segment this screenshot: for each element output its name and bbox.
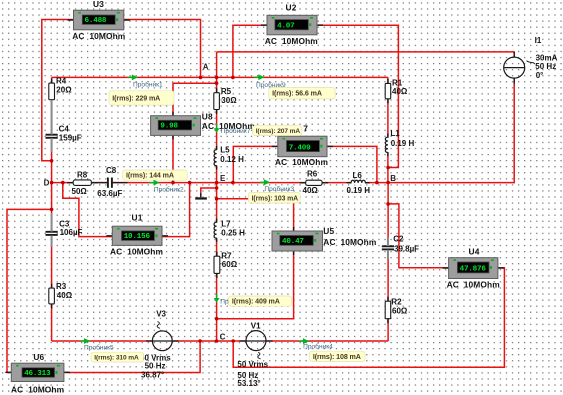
svg-text:C4: C4 bbox=[59, 124, 70, 133]
junction U2 tap bbox=[386, 166, 390, 170]
multimeter U3 bbox=[68, 10, 130, 30]
ground bbox=[195, 193, 207, 199]
svg-text:R4: R4 bbox=[56, 76, 67, 85]
junction B bbox=[386, 181, 390, 185]
svg-text:4.07: 4.07 bbox=[277, 23, 295, 31]
capacitor lead C3 gray bbox=[51, 213, 53, 232]
svg-text:I(rms): 56.6 mA: I(rms): 56.6 mA bbox=[272, 90, 322, 98]
resistor R6 bbox=[300, 180, 328, 185]
svg-text:R8: R8 bbox=[77, 171, 88, 180]
svg-text:20Ω: 20Ω bbox=[56, 86, 72, 95]
capacitor C4 bbox=[46, 134, 58, 139]
svg-text:I(rms): 310 mA: I(rms): 310 mA bbox=[94, 355, 139, 362]
inductor L6 bbox=[347, 180, 370, 184]
junction C bbox=[215, 339, 219, 343]
svg-text:AC 10MOhm: AC 10MOhm bbox=[11, 385, 64, 395]
svg-text:0.19 H: 0.19 H bbox=[391, 139, 415, 148]
svg-text:I(rms): 229 mA: I(rms): 229 mA bbox=[112, 94, 160, 102]
probe tooltip probe3 bbox=[248, 193, 300, 203]
callout squiggle I1 bbox=[527, 61, 535, 64]
svg-text:60Ω: 60Ω bbox=[392, 307, 408, 316]
wire ground branch bbox=[201, 188, 217, 197]
capacitor C3 bbox=[46, 231, 58, 236]
svg-text:I1: I1 bbox=[535, 36, 542, 45]
wire U2 right lead to L1 bottom bbox=[317, 25, 398, 167]
junction U3 tap bbox=[50, 159, 54, 163]
wire U7 right lead bbox=[327, 146, 377, 182]
junction A2 bbox=[215, 76, 219, 80]
wire U3 left to C4 chain tap bbox=[42, 20, 74, 161]
svg-text:U6: U6 bbox=[33, 352, 44, 362]
svg-text:46.313: 46.313 bbox=[24, 370, 51, 378]
svg-text:63.6µF: 63.6µF bbox=[97, 189, 122, 198]
probe arrow probe9 bbox=[254, 74, 265, 80]
svg-text:60Ω: 60Ω bbox=[222, 260, 238, 269]
junction U5 tap bbox=[215, 197, 219, 201]
multimeter U6 bbox=[5, 363, 70, 381]
svg-text:U4: U4 bbox=[469, 246, 480, 256]
svg-text:C3: C3 bbox=[59, 219, 70, 228]
wire left chain C3-R3 D to bottom bbox=[51, 183, 53, 341]
wire U5 bottom lead bbox=[217, 251, 294, 319]
multimeter U8 bbox=[151, 112, 201, 140]
multimeter U2 bbox=[261, 15, 323, 35]
inductor L1 bbox=[385, 134, 389, 157]
svg-text:7.409: 7.409 bbox=[289, 144, 311, 152]
svg-text:R6: R6 bbox=[307, 170, 318, 179]
wire D to U1 left bbox=[63, 183, 113, 237]
svg-text:AC 10MOhm: AC 10MOhm bbox=[110, 246, 163, 256]
capacitor C2 bbox=[382, 245, 394, 250]
value 50 Vrms 50 Hz 53.13deg of V1 bbox=[237, 360, 268, 388]
svg-text:0.19 H: 0.19 H bbox=[347, 186, 371, 195]
wire U8 top lead bbox=[173, 83, 217, 116]
junction U8 bottom bbox=[171, 181, 175, 185]
svg-text:50 Hz: 50 Hz bbox=[535, 62, 556, 71]
ac voltage source V3 bbox=[146, 331, 179, 351]
junction D bbox=[50, 181, 54, 185]
probe tooltip probe5 bbox=[91, 352, 144, 362]
svg-text:6.488: 6.488 bbox=[85, 17, 107, 25]
svg-text:V3: V3 bbox=[156, 309, 166, 318]
wire U5 top lead bbox=[217, 199, 294, 231]
svg-text:AC 10MOhm: AC 10MOhm bbox=[72, 31, 125, 41]
svg-text:0°: 0° bbox=[536, 71, 544, 80]
wire node A horizontal bus bbox=[52, 76, 388, 78]
wire left chain R4-C4 to D bbox=[51, 77, 53, 182]
multimeter U1 bbox=[106, 226, 168, 245]
svg-text:50 Vrms: 50 Vrms bbox=[237, 360, 268, 369]
resistor R5 bbox=[214, 88, 220, 114]
wire right chain R2-C2 to B bbox=[387, 183, 389, 341]
svg-text:106µF: 106µF bbox=[60, 228, 83, 237]
capacitor lead C4 gray bbox=[51, 100, 53, 135]
svg-text:40.47: 40.47 bbox=[282, 238, 304, 246]
multimeter U4 bbox=[443, 258, 504, 279]
probe tooltip probe1 bbox=[109, 91, 174, 105]
resistor R3 bbox=[49, 284, 55, 309]
wire U6 right lead bbox=[64, 341, 200, 373]
svg-text:7: 7 bbox=[303, 123, 308, 133]
wire U7 left lead bbox=[233, 146, 277, 182]
svg-text:39.8µF: 39.8µF bbox=[394, 245, 419, 254]
capacitor lead C2 gray bbox=[387, 237, 389, 246]
ac current source I1 bbox=[504, 52, 525, 84]
resistor R4 bbox=[49, 79, 55, 105]
resistor R7 bbox=[214, 252, 220, 278]
wire R5-L5 chain A to E bbox=[216, 52, 218, 183]
wire bus D-E-B with R8 C8 R6 L6 bbox=[52, 182, 389, 184]
svg-text:U3: U3 bbox=[93, 0, 104, 9]
svg-text:R2: R2 bbox=[391, 297, 402, 306]
capacitor C8 bbox=[92, 178, 128, 188]
svg-text:C: C bbox=[220, 333, 226, 342]
probe arrow probe2 bbox=[149, 180, 160, 186]
svg-text:AC 10MOhm: AC 10MOhm bbox=[275, 157, 328, 167]
probe tooltip probe6 bbox=[229, 296, 292, 306]
ac voltage source V1 bbox=[239, 331, 272, 351]
wire U3 right to node A bbox=[124, 20, 201, 78]
junction A3 bbox=[231, 76, 235, 80]
svg-text:L1: L1 bbox=[390, 129, 400, 138]
svg-text:I(rms): 103 mA: I(rms): 103 mA bbox=[252, 195, 299, 202]
svg-text:Пробник7: Пробник7 bbox=[221, 127, 251, 135]
svg-text:R5: R5 bbox=[221, 87, 232, 96]
junction U7 left tap bbox=[231, 181, 235, 185]
probe tooltip probe7 bbox=[252, 126, 301, 136]
junction U5 bottom tap bbox=[215, 317, 219, 321]
resistor R8 bbox=[67, 180, 97, 186]
svg-text:53.13°: 53.13° bbox=[237, 379, 260, 388]
svg-text:U8: U8 bbox=[202, 112, 213, 122]
svg-text:I(rms): 144 mA: I(rms): 144 mA bbox=[126, 172, 174, 180]
svg-text:U5: U5 bbox=[323, 226, 334, 236]
wire U6 left lead bbox=[7, 209, 52, 372]
inductor L7 bbox=[214, 219, 218, 242]
wire U1 right to E bus bbox=[162, 183, 190, 237]
probe arrow probe3 bbox=[259, 179, 270, 185]
junction U1 tap bbox=[188, 181, 192, 185]
junction A1 bbox=[199, 76, 203, 80]
junction D2 bbox=[61, 181, 65, 185]
svg-text:B: B bbox=[390, 174, 396, 183]
multimeter U5 bbox=[272, 227, 323, 255]
svg-text:10.156: 10.156 bbox=[124, 233, 151, 241]
probe arrow probe1 bbox=[127, 75, 138, 81]
probe arrow probe7 bbox=[214, 124, 220, 133]
wire middle chain L7-R7 E to C bbox=[216, 183, 218, 341]
svg-text:40Ω: 40Ω bbox=[392, 87, 408, 96]
svg-text:Пробник5: Пробник5 bbox=[84, 344, 114, 352]
svg-text:V1: V1 bbox=[251, 322, 261, 331]
svg-text:Пр: Пр bbox=[220, 298, 229, 305]
svg-text:50Ω: 50Ω bbox=[72, 187, 88, 196]
wire I1 bottom to node B bbox=[388, 78, 514, 183]
svg-text:A: A bbox=[203, 62, 209, 71]
callout squiggle V1 bbox=[258, 352, 261, 359]
svg-text:47.876: 47.876 bbox=[460, 266, 487, 274]
svg-text:40Ω: 40Ω bbox=[303, 186, 319, 195]
svg-text:I(rms): 207 mA: I(rms): 207 mA bbox=[256, 128, 301, 135]
probe tooltip probe4 bbox=[310, 351, 366, 361]
value 30mA 50 Hz 0deg of I1 bbox=[535, 53, 557, 79]
svg-text:0.25 H: 0.25 H bbox=[221, 229, 245, 238]
probe arrow probe6 bbox=[214, 294, 220, 303]
svg-text:AC 10MOhm: AC 10MOhm bbox=[447, 279, 500, 289]
svg-text:R3: R3 bbox=[56, 282, 67, 291]
wire U8 bottom lead bbox=[172, 135, 174, 182]
svg-text:AC 10MOhm: AC 10MOhm bbox=[265, 36, 318, 46]
junction E bbox=[215, 181, 219, 185]
wire U4 left lead bbox=[388, 204, 449, 268]
resistor R1 bbox=[385, 79, 391, 103]
svg-text:L7: L7 bbox=[221, 219, 231, 228]
junction U6 tap bbox=[50, 208, 54, 212]
wire U4 right lead loop bbox=[233, 268, 504, 368]
probe tooltip probe9 bbox=[269, 88, 335, 99]
resistor R2 bbox=[385, 297, 391, 324]
svg-text:Пробник2: Пробник2 bbox=[154, 186, 184, 194]
probe tooltip probe2 bbox=[123, 170, 188, 180]
svg-text:C8: C8 bbox=[106, 166, 117, 175]
callout squiggle V3 bbox=[157, 322, 160, 329]
svg-text:Пробник1: Пробник1 bbox=[133, 80, 163, 88]
svg-text:E: E bbox=[220, 174, 226, 183]
svg-text:I(rms): 108 mA: I(rms): 108 mA bbox=[313, 353, 361, 361]
junction U8 tap bbox=[215, 81, 219, 85]
junction V3 out bbox=[198, 339, 202, 343]
junction U4 loop tap bbox=[231, 339, 235, 343]
multimeter U7 bbox=[272, 136, 333, 157]
wire U2 left lead bbox=[233, 25, 267, 77]
svg-text:0.12 H: 0.12 H bbox=[220, 155, 244, 164]
wire node A to I1 top bbox=[217, 52, 515, 58]
svg-text:40Ω: 40Ω bbox=[57, 291, 73, 300]
wire right chain R1-L1 A to B bbox=[387, 77, 389, 182]
svg-text:159µF: 159µF bbox=[59, 134, 82, 143]
value 50 Vrms 50 Hz 36.87deg of V3 bbox=[140, 353, 171, 379]
svg-text:D: D bbox=[44, 178, 50, 187]
svg-text:U2: U2 bbox=[286, 3, 297, 13]
junction gnd tap bbox=[215, 186, 219, 190]
svg-text:L5: L5 bbox=[220, 145, 230, 154]
svg-text:Пробник3: Пробник3 bbox=[264, 185, 294, 193]
svg-text:C2: C2 bbox=[393, 235, 404, 244]
junction U4 tap bbox=[386, 202, 390, 206]
svg-text:I(rms): 409 mA: I(rms): 409 mA bbox=[232, 298, 280, 306]
svg-text:Пробник4: Пробник4 bbox=[303, 343, 333, 351]
svg-text:AC 10MOhm: AC 10MOhm bbox=[323, 237, 376, 247]
svg-text:L6: L6 bbox=[353, 171, 363, 180]
probe arrow probe5 bbox=[80, 338, 91, 344]
inductor L5 bbox=[214, 146, 218, 169]
svg-text:U1: U1 bbox=[132, 212, 143, 222]
probe arrow probe4 bbox=[299, 338, 310, 344]
junction U7 right tap bbox=[375, 181, 379, 185]
wire bottom bus with V3 V1 bbox=[52, 340, 389, 342]
svg-text:36.87°: 36.87° bbox=[141, 371, 164, 380]
svg-text:9.98: 9.98 bbox=[160, 123, 178, 131]
svg-text:30Ω: 30Ω bbox=[221, 96, 237, 105]
svg-text:50 Hz: 50 Hz bbox=[145, 362, 166, 371]
